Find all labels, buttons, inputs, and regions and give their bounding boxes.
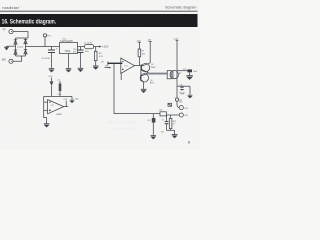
header [2,5,196,10]
wire branch down [114,63,160,113]
capacitor C13 [177,69,192,75]
ground [44,124,50,127]
svg-text:16. Schematic diagram.: 16. Schematic diagram. [2,18,57,25]
svg-text:100u: 100u [85,51,89,53]
wire to terminal CN2 [166,114,179,116]
svg-text:+12V: +12V [147,40,152,42]
resistor R7 pull-up [138,42,141,65]
wire [13,32,28,38]
coupling box on wire [160,112,166,116]
transistor Q3 [140,73,148,89]
svg-text:C14: C14 [159,110,162,112]
node junction [113,63,114,64]
ground [78,68,84,71]
svg-text:4.7K: 4.7K [99,56,104,58]
svg-text:+12V: +12V [48,76,53,78]
wire op-amp input loop [44,96,48,123]
wire [13,56,21,61]
svg-text:IC1: IC1 [125,65,128,67]
svg-text:TP: TP [2,28,6,32]
svg-text:B772: B772 [150,83,154,85]
wire +12V arrow [94,45,102,47]
svg-text:D1-D4: D1-D4 [17,47,24,49]
ground [188,95,193,98]
bridge rectifier D1-D4 [14,38,28,56]
ground [93,66,99,69]
svg-text:free download: free download [112,127,136,131]
terminal CN1 [179,106,183,110]
ground [141,89,147,92]
input wire [108,61,123,65]
svg-text:C13: C13 [183,69,186,71]
svg-text:MIC: MIC [2,58,7,61]
capacitor C16 branch [177,86,190,95]
svg-text:L1 10uH: L1 10uH [84,43,92,45]
svg-text:Q2: Q2 [151,64,154,66]
ground [151,136,157,139]
terminal TP2 [9,59,13,63]
svg-text:service manuals: service manuals [107,120,138,125]
ground [66,69,72,72]
svg-text:roadstar´: roadstar´ [2,6,21,10]
speaker SP1 [167,70,178,78]
svg-text:CN2: CN2 [184,115,187,117]
capacitor C9 [165,115,169,130]
svg-text:CN1: CN1 [184,108,187,110]
wire main rail [26,46,60,48]
terminal TP1 [9,30,13,34]
wire rail out [78,46,85,48]
diode D5 vertical [50,78,54,97]
resistor R9 dark [59,81,62,96]
resistor R13 [169,115,172,130]
svg-text:+12V: +12V [136,40,141,42]
svg-text:Q3: Q3 [150,80,153,82]
svg-text:4.7: 4.7 [173,124,175,126]
svg-text:+12: +12 [57,80,60,82]
svg-text:C5 4700: C5 4700 [42,58,51,60]
inductor L1 [85,44,94,48]
ground [49,69,55,72]
resistor R8 [94,47,97,66]
test point arrow [43,34,46,47]
capacitor C5 [48,47,55,69]
ground [186,76,192,80]
svg-text:LM386: LM386 [56,114,62,116]
svg-text:470: 470 [161,132,164,134]
wire bias rail [44,95,72,97]
capacitor C10 [78,47,84,68]
watermark [107,120,138,131]
terminal CN2 [179,113,183,117]
svg-text:Schematic diagram: Schematic diagram [165,5,197,9]
wire to ground [167,130,175,134]
transistor Q2 [141,63,150,78]
svg-text:C9: C9 [162,119,164,121]
regulator IC3 7812 [60,43,78,69]
svg-text:7812: 7812 [65,49,71,53]
ground [172,135,178,138]
power line +12V right [176,40,179,98]
LED D10 [175,98,179,108]
svg-text:R16: R16 [181,94,184,96]
svg-text:GND: GND [75,98,80,100]
svg-text:+12V: +12V [102,45,109,49]
connector mark [168,103,172,106]
svg-text:IC2: IC2 [51,105,54,107]
schematic tiny labels [2,28,198,145]
svg-text:KIA7812API: KIA7812API [60,40,73,43]
ground [4,46,15,50]
svg-text:+12V: +12V [173,38,178,40]
test point TP2 arrow [105,67,112,69]
svg-text:C12: C12 [147,120,150,122]
svg-text:C16: C16 [179,84,182,86]
section banner [0,14,198,27]
ground small [70,96,74,102]
op-amp IC1 [121,58,141,80]
op-amp IC2 [48,100,69,114]
capacitor C12 electrolytic [152,114,156,136]
header rule [0,11,198,12]
svg-text:D882: D882 [151,67,156,69]
svg-text:470: 470 [73,52,76,54]
svg-text:R7: R7 [142,51,144,53]
power line +12V [149,42,152,64]
emitter rail to speaker [148,73,167,75]
